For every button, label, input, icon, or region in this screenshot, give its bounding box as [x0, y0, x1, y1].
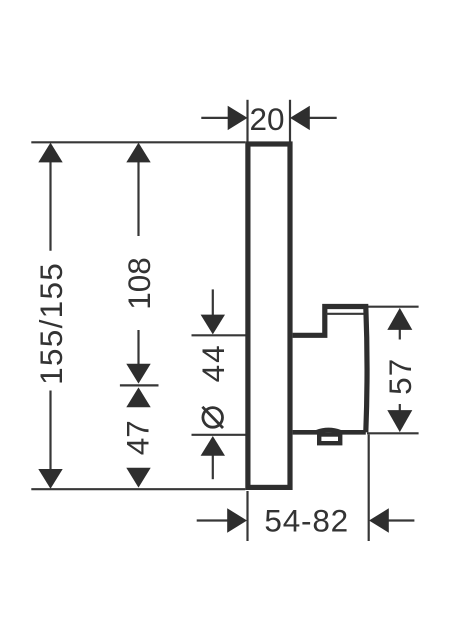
- extension line top (plate top edge extended left): [31, 141, 245, 143]
- dim 20 left extension line: [246, 100, 248, 142]
- dim 20 right tail: [309, 117, 337, 119]
- svg-text:44: 44: [195, 343, 231, 382]
- dim 44 line lower stub: [212, 455, 214, 479]
- svg-text:57: 57: [382, 358, 418, 395]
- diameter symbol: [202, 407, 223, 428]
- arrow 44 top (down): [201, 315, 225, 335]
- arrow 57 bottom (down): [387, 410, 412, 432]
- plate (wall plate, side view): [248, 144, 290, 487]
- arrow 47 bottom (down): [126, 468, 150, 488]
- arrow 155 bottom (down): [38, 469, 62, 489]
- arrow 54-82 left (right-pointing): [227, 508, 247, 532]
- dim 54-82 left extension line: [246, 491, 248, 541]
- dim 155 line upper segment: [49, 161, 51, 251]
- dim 54-82 right extension line: [368, 435, 370, 542]
- handle body top outline with stepped cap: [293, 307, 367, 433]
- arrow 20 left (right-pointing): [228, 106, 248, 130]
- tick at 108/47 boundary: [120, 384, 159, 386]
- handle tab (clip below body): [319, 435, 340, 444]
- dim 155 line lower segment: [49, 391, 51, 471]
- arrow 54-82 right (left-pointing): [369, 508, 389, 532]
- arrow 20 right (left-pointing): [290, 106, 310, 130]
- dim 54-82 right tail: [388, 519, 414, 521]
- arrow 108 top (up): [126, 143, 150, 163]
- arrow 155 top (up): [38, 143, 62, 163]
- dim 57 bottom boundary line: [367, 432, 419, 434]
- dim 20 right extension line: [289, 100, 291, 142]
- arrow 57 top (up): [387, 308, 412, 330]
- dim 57 upper stub: [399, 327, 401, 340]
- svg-text:54-82: 54-82: [264, 503, 349, 539]
- dim 44 lower tick: [192, 434, 246, 436]
- svg-text:108: 108: [121, 257, 157, 310]
- svg-text:20: 20: [249, 101, 284, 137]
- dim 44 line upper stub: [212, 289, 214, 315]
- arrow 47 top (up): [126, 387, 150, 407]
- dim 108 line lower segment: [137, 330, 139, 365]
- arrow 44 bottom (up): [201, 436, 225, 456]
- dim 20 left tail: [201, 117, 228, 119]
- svg-text:155/155: 155/155: [33, 262, 69, 385]
- dim 57 lower stub: [399, 404, 401, 413]
- dim 54-82 left tail: [197, 519, 228, 521]
- extension line bottom (plate bottom edge extended left): [31, 488, 245, 490]
- dim 44 upper tick: [192, 334, 246, 336]
- handle body bottom edge with bump over tab: [293, 430, 366, 432]
- svg-text:47: 47: [119, 420, 155, 455]
- dim 108 line upper segment: [137, 161, 139, 236]
- arrow 108 bottom (down): [126, 364, 150, 384]
- dim 57 top boundary line: [367, 306, 419, 308]
- cap inner seam line: [326, 313, 364, 315]
